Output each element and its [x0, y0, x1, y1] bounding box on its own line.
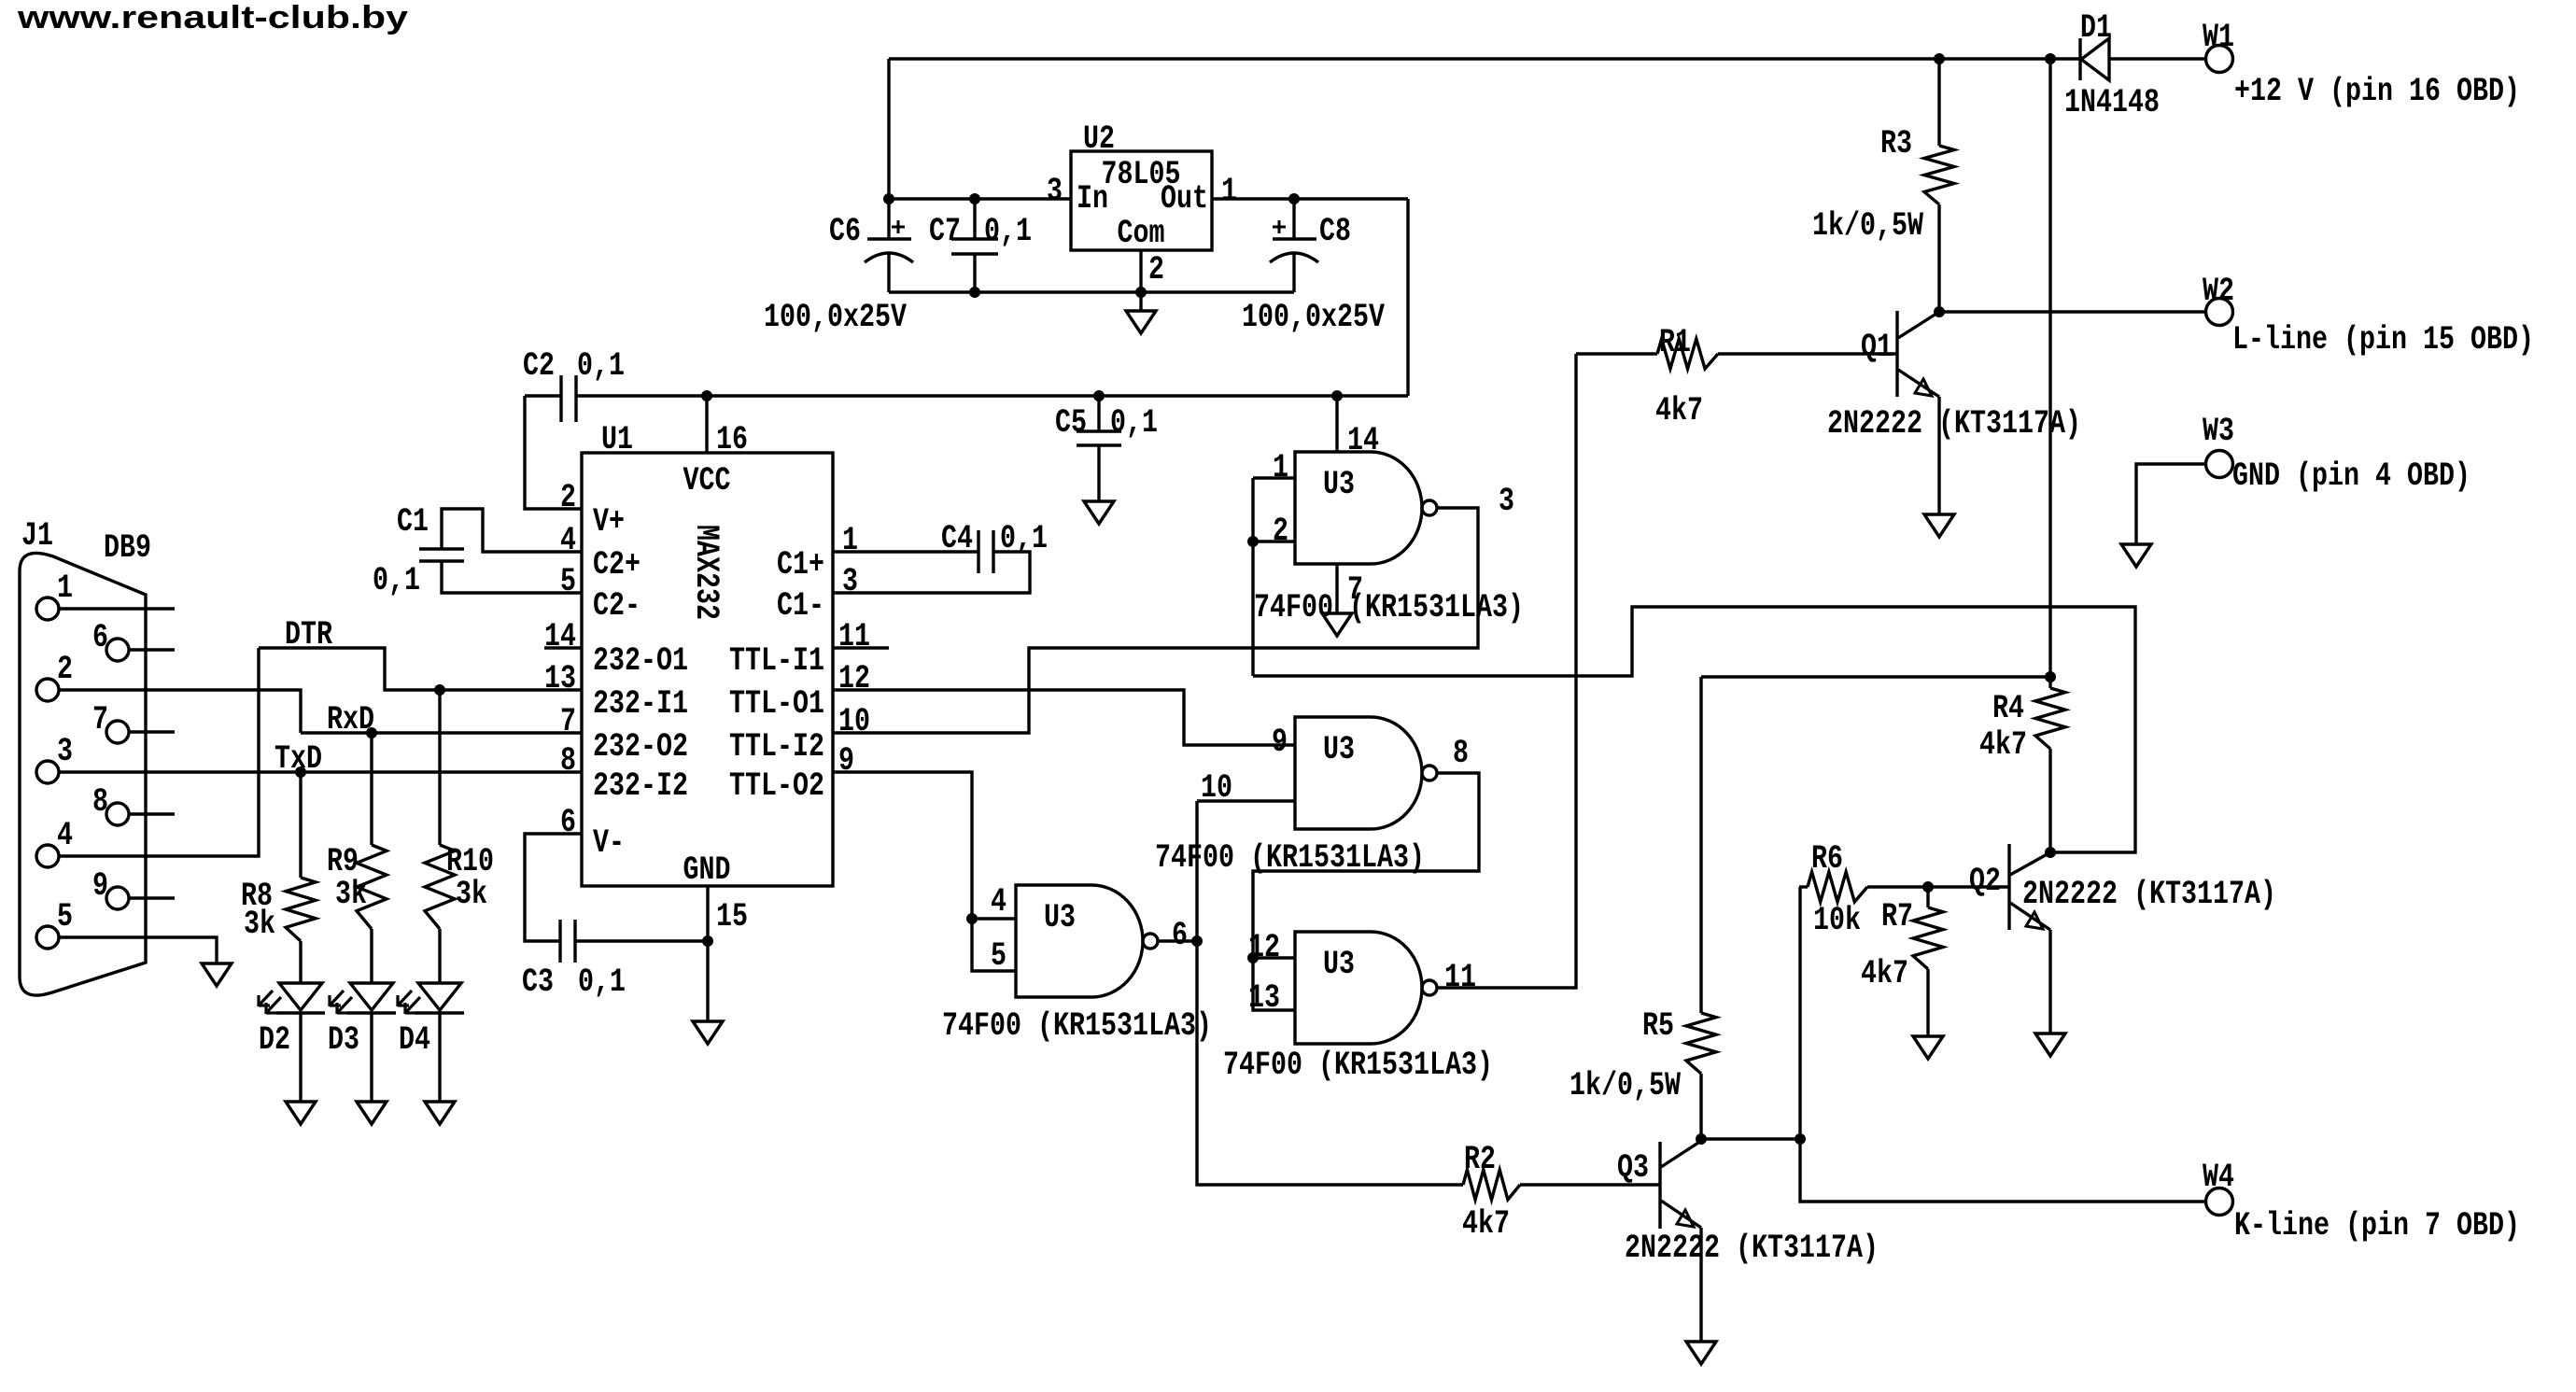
svg-text:2N2222 (KT3117A): 2N2222 (KT3117A) — [1625, 1230, 1879, 1267]
wire Com ground stem — [1139, 292, 1142, 311]
svg-text:Q3: Q3 — [1617, 1149, 1649, 1187]
wire U2 Out to 5V corner — [1212, 197, 1408, 200]
svg-text:Q1: Q1 — [1861, 329, 1893, 366]
resistor R2 4k7 — [1463, 1170, 1520, 1200]
wire U3a input stubs — [1253, 476, 1295, 479]
svg-text:TxD: TxD — [274, 740, 322, 778]
svg-text:C1+: C1+ — [777, 546, 824, 584]
wire pin12 to U3b pin9 — [833, 690, 1295, 745]
svg-text:C8: C8 — [1319, 213, 1351, 250]
svg-text:6: 6 — [1172, 917, 1188, 954]
svg-text:1N4148: 1N4148 — [2064, 84, 2160, 121]
node Q3 collector R5 junction — [1696, 1134, 1707, 1145]
svg-text:9: 9 — [838, 742, 854, 780]
terminal W2 circle — [2206, 299, 2233, 326]
node U1 pin16 on VCC rail — [702, 391, 712, 401]
svg-text:R1: R1 — [1659, 324, 1691, 361]
wire pin6 V- to C3 — [525, 834, 582, 941]
wire C3 to pin15 node — [575, 939, 708, 942]
svg-text:U3: U3 — [1323, 731, 1355, 768]
wire U1 pin16 stem — [705, 396, 708, 453]
svg-text:C1: C1 — [397, 503, 429, 541]
svg-text:74F00 (KR1531LA3): 74F00 (KR1531LA3) — [1254, 589, 1524, 626]
connector J1 DB9 shell — [20, 553, 146, 995]
svg-text:D1: D1 — [2080, 9, 2112, 47]
wire J1 pin7 stub — [129, 730, 175, 733]
wire J1 pin9 stub — [129, 896, 175, 899]
svg-text:74F00 (KR1531LA3): 74F00 (KR1531LA3) — [1223, 1047, 1493, 1084]
svg-text:9: 9 — [1272, 724, 1288, 761]
LED D3 — [350, 983, 393, 1010]
svg-text:U3: U3 — [1044, 899, 1076, 936]
svg-text:R2: R2 — [1464, 1141, 1496, 1178]
svg-text:C2+: C2+ — [593, 546, 640, 584]
transistor Q3 2N2222 — [1658, 1142, 1661, 1229]
wire U2 Com to ground rail — [1139, 250, 1142, 292]
svg-text:2: 2 — [560, 479, 576, 516]
terminal W4 circle — [2206, 1188, 2233, 1216]
ground under D3 — [357, 1102, 387, 1124]
node R10 on DTR line — [435, 685, 445, 696]
svg-text:3k: 3k — [335, 876, 367, 913]
ground at J1 pin5 — [202, 963, 232, 986]
svg-text:13: 13 — [544, 660, 576, 697]
svg-text:4k7: 4k7 — [1462, 1205, 1510, 1243]
svg-text:1: 1 — [842, 522, 858, 559]
svg-text:C4: C4 — [941, 520, 973, 557]
NAND gate U3a pins 1 2 3 — [1295, 452, 1422, 564]
svg-text:www.renault-club.by: www.renault-club.by — [17, 0, 408, 35]
svg-text:0,1: 0,1 — [578, 963, 626, 1001]
svg-text:U3: U3 — [1323, 946, 1355, 983]
terminal W3 circle — [2206, 451, 2233, 478]
wire U3d output to R1 riser — [1437, 354, 1576, 988]
svg-text:232-O2: 232-O2 — [593, 728, 688, 766]
ground under U1 pin15 — [693, 1021, 723, 1044]
wire Q2 emitter to ground — [2048, 930, 2051, 1033]
svg-text:2N2222 (KT3117A): 2N2222 (KT3117A) — [2022, 876, 2276, 913]
wire U3a inputs to Q2 collector net — [1253, 607, 2135, 852]
J1 pin 1 circle — [36, 598, 59, 620]
node C7 top junction — [970, 194, 980, 204]
transistor Q1 2N2222 — [1895, 311, 1898, 397]
resistor R6 10k — [1799, 885, 1808, 888]
svg-text:R5: R5 — [1642, 1007, 1674, 1045]
ground under Q2 — [2035, 1033, 2065, 1056]
svg-text:5: 5 — [560, 563, 576, 600]
svg-text:J1: J1 — [21, 517, 53, 555]
svg-text:C6: C6 — [829, 213, 861, 250]
svg-text:232-O1: 232-O1 — [593, 642, 688, 680]
svg-text:W3: W3 — [2203, 413, 2234, 450]
svg-text:+12 V (pin 16 OBD): +12 V (pin 16 OBD) — [2234, 73, 2520, 110]
wire U3a pin14 stem — [1335, 396, 1338, 452]
svg-text:W2: W2 — [2203, 273, 2234, 310]
capacitor C6 — [887, 199, 890, 239]
node pin15 C3 junction — [703, 936, 713, 947]
wire R4 bottom to Q2 collector — [2048, 749, 2051, 852]
wire U3d pin12 stub — [1253, 956, 1295, 959]
wire In rail — [889, 197, 1071, 200]
wire R3 bottom to Q1 collector — [1937, 204, 1940, 312]
svg-text:3k: 3k — [456, 876, 487, 913]
svg-text:GND (pin 4 OBD): GND (pin 4 OBD) — [2232, 457, 2470, 495]
svg-text:10: 10 — [838, 703, 870, 740]
resistor R10 3k — [438, 690, 441, 845]
svg-text:11: 11 — [838, 618, 870, 655]
wire J1 pin5 to ground — [59, 937, 217, 963]
svg-text:C2-: C2- — [593, 587, 640, 625]
voltage regulator U2 78L05 — [1071, 151, 1212, 250]
svg-text:15: 15 — [716, 898, 748, 935]
svg-text:0,1: 0,1 — [577, 347, 625, 385]
svg-text:4k7: 4k7 — [1861, 955, 1908, 992]
node C5 on VCC rail — [1094, 391, 1105, 401]
resistor R4 4k7 — [2048, 677, 2051, 688]
node Q1 collector junction — [1935, 307, 1945, 317]
svg-text:R3: R3 — [1880, 125, 1912, 162]
wire C2 to V+ pin2 — [525, 396, 582, 509]
resistor R8 3k — [299, 772, 302, 878]
svg-text:R10: R10 — [446, 843, 494, 880]
node top rail D1 junction — [2046, 54, 2056, 64]
transistor Q2 2N2222 — [2007, 844, 2010, 930]
wire DTR J1 pin4 riser — [59, 648, 259, 856]
svg-text:11: 11 — [1444, 959, 1476, 996]
svg-text:2: 2 — [1273, 513, 1288, 550]
svg-text:D4: D4 — [399, 1021, 430, 1059]
svg-text:U3: U3 — [1323, 466, 1355, 503]
wire +12 vertical from D1 node — [2048, 59, 2051, 677]
resistor R9 3k — [370, 733, 373, 845]
svg-text:L-line (pin 15 OBD): L-line (pin 15 OBD) — [2232, 321, 2534, 359]
node R7 junction on Q2 base — [1923, 882, 1934, 893]
wire J1 pin8 stub — [129, 812, 175, 815]
node R8 on TxD line — [296, 767, 306, 778]
svg-text:74F00 (KR1531LA3): 74F00 (KR1531LA3) — [942, 1007, 1212, 1045]
svg-text:2: 2 — [1148, 251, 1164, 288]
wire R6 riser and W4 drop — [1800, 887, 2205, 1202]
svg-text:3: 3 — [1499, 483, 1514, 520]
wire Q1 collector to W2 — [1939, 310, 2205, 313]
J1 pin 6 circle — [106, 639, 129, 661]
node U3a pin2 junction — [1248, 537, 1259, 547]
wire DTR jog to U1 pin13 — [259, 648, 582, 690]
svg-text:D3: D3 — [328, 1021, 359, 1059]
diode D1 1N4148 — [2050, 57, 2080, 60]
svg-text:V-: V- — [593, 824, 625, 862]
svg-text:16: 16 — [716, 421, 748, 458]
svg-text:TTL-O1: TTL-O1 — [729, 685, 824, 723]
node U3c output junction — [1192, 936, 1203, 947]
svg-text:6: 6 — [92, 619, 108, 656]
svg-text:0,1: 0,1 — [373, 562, 420, 599]
node top rail R3 junction — [1935, 54, 1945, 64]
svg-text:D2: D2 — [259, 1021, 290, 1059]
svg-text:100,0x25V: 100,0x25V — [1242, 299, 1385, 336]
node U3 pin14 on VCC rail — [1332, 391, 1343, 401]
wire Q3 emitter to ground — [1699, 1228, 1702, 1342]
terminal W1 circle — [2206, 46, 2233, 73]
svg-text:DB9: DB9 — [104, 529, 151, 567]
NAND gate U3b pins 9 10 8 — [1295, 717, 1422, 829]
svg-text:TTL-I2: TTL-I2 — [729, 728, 824, 766]
wire pin9 to U3c inputs — [833, 772, 1016, 971]
node U3c pin4 junction — [967, 914, 978, 924]
wire C4 to pin3 — [833, 552, 1030, 593]
svg-text:1k/0,5W: 1k/0,5W — [1812, 207, 1923, 245]
svg-text:14: 14 — [544, 618, 576, 655]
wire U3a pin7 ground stem — [1335, 564, 1338, 613]
wire top rail riser to In node — [887, 59, 890, 199]
svg-text:R6: R6 — [1811, 840, 1843, 878]
svg-text:9: 9 — [92, 867, 108, 905]
svg-text:U2: U2 — [1083, 120, 1115, 158]
capacitor C8 — [1292, 199, 1295, 239]
wire W3 to ground — [2136, 464, 2205, 544]
svg-text:RxD: RxD — [327, 701, 374, 738]
svg-text:8: 8 — [1453, 735, 1469, 772]
svg-text:3k: 3k — [244, 906, 275, 943]
capacitor C4 — [977, 530, 979, 573]
svg-text:0,1: 0,1 — [1110, 404, 1158, 442]
svg-text:VCC: VCC — [683, 462, 731, 499]
svg-text:Q2: Q2 — [1969, 863, 2001, 900]
wire +12 to R5 — [1701, 675, 2050, 678]
svg-text:7: 7 — [92, 701, 108, 738]
node Q2 collector junction — [2046, 848, 2056, 858]
J1 pin 8 circle — [106, 803, 129, 825]
svg-text:Out: Out — [1161, 180, 1208, 218]
svg-text:7: 7 — [560, 703, 576, 740]
wire 5V drop to VCC rail — [1406, 199, 1409, 396]
J1 pin 3 circle — [36, 761, 59, 783]
wire pin4 to C1 — [442, 509, 582, 552]
capacitor C7 — [973, 199, 976, 239]
wire TxD J1 pin3 to U1 pin8 — [59, 770, 582, 773]
svg-text:4k7: 4k7 — [1979, 726, 2027, 764]
wire U3b pin10 input — [1197, 799, 1295, 802]
ground under C5 — [1084, 501, 1114, 524]
svg-text:W1: W1 — [2203, 19, 2234, 56]
ground under Q1 — [1924, 514, 1954, 537]
node U3d pin12 junction — [1248, 953, 1259, 963]
svg-text:Com: Com — [1118, 215, 1165, 252]
capacitor C3 — [558, 920, 561, 963]
J1 pin 2 circle — [36, 679, 59, 701]
svg-text:12: 12 — [838, 660, 870, 697]
svg-text:3: 3 — [842, 563, 858, 600]
svg-text:MAX232: MAX232 — [687, 525, 725, 620]
wire +12V top rail — [889, 57, 2050, 60]
NAND gate U3d pins 12 13 11 — [1295, 932, 1422, 1044]
svg-text:232-I2: 232-I2 — [593, 767, 688, 805]
wire U3c output to node — [1158, 939, 1197, 942]
svg-text:0,1: 0,1 — [984, 213, 1032, 250]
wire U3b output to U3d inputs — [1253, 773, 1479, 1010]
wire U3c pin4 stub — [972, 917, 1016, 920]
IC U1 MAX232 — [582, 453, 833, 886]
svg-text:C7: C7 — [929, 213, 961, 250]
NAND gate U3c pins 4 5 6 — [1016, 885, 1143, 997]
svg-text:2: 2 — [57, 651, 73, 688]
node K-line R6 junction — [1795, 1134, 1806, 1145]
wire ground rail under C6 C7 U2 C8 — [889, 290, 1294, 293]
svg-text:R7: R7 — [1881, 898, 1913, 935]
wire J1 pin1 stub — [59, 607, 175, 610]
svg-text:4k7: 4k7 — [1655, 392, 1703, 429]
svg-text:U1: U1 — [601, 421, 633, 458]
resistor R3 1k/0,5W — [1924, 146, 1954, 204]
wire RxD line to U1 pin7 — [301, 731, 582, 734]
node R9 on RxD line — [367, 728, 377, 738]
resistor R5 1k/0,5W — [1699, 677, 1702, 1013]
resistor R1 4k7 — [1576, 352, 1657, 355]
svg-text:C1-: C1- — [777, 587, 824, 625]
svg-text:2N2222 (KT3117A): 2N2222 (KT3117A) — [1827, 405, 2081, 443]
J1 pin 9 circle — [106, 887, 129, 909]
wire U1 pin15 stem — [706, 886, 709, 941]
svg-text:13: 13 — [1248, 979, 1280, 1017]
svg-text:10k: 10k — [1813, 902, 1861, 939]
wire J1 pin2 to RxD line — [59, 690, 301, 733]
svg-text:1k/0,5W: 1k/0,5W — [1570, 1067, 1681, 1104]
wire C1 to pin5 — [442, 561, 582, 593]
svg-text:C5: C5 — [1055, 404, 1087, 442]
ground under U2 — [1126, 311, 1156, 333]
resistor R7 4k7 — [1926, 887, 1929, 907]
J1 pin 7 circle — [106, 721, 129, 743]
LED D4 — [418, 983, 461, 1010]
capacitor C2 — [525, 394, 561, 397]
svg-text:GND: GND — [683, 851, 731, 889]
svg-text:R9: R9 — [327, 843, 359, 880]
wire J1 pin6 stub — [129, 648, 175, 651]
svg-text:DTR: DTR — [285, 616, 332, 654]
wire R3 top — [1937, 59, 1940, 146]
svg-text:12: 12 — [1248, 929, 1280, 966]
node C8 top — [1289, 194, 1300, 204]
svg-text:1: 1 — [1273, 449, 1288, 486]
svg-text:R4: R4 — [1992, 690, 2024, 727]
ground under D2 — [286, 1102, 316, 1124]
svg-text:4: 4 — [57, 817, 73, 854]
capacitor C5 — [1097, 396, 1100, 431]
ground at W3 — [2121, 544, 2151, 567]
wire K-line horizontal — [1701, 1137, 1800, 1140]
wire VCC rail — [576, 394, 1408, 397]
svg-text:4: 4 — [560, 522, 576, 559]
svg-text:6: 6 — [560, 804, 576, 841]
wire Q1 emitter to ground — [1937, 397, 1940, 514]
svg-text:1: 1 — [1221, 173, 1237, 210]
svg-text:C2: C2 — [523, 347, 555, 385]
svg-text:C3: C3 — [522, 963, 554, 1001]
pin 11 TTL-I1 stub — [833, 646, 889, 649]
ground under Q3 — [1686, 1342, 1716, 1364]
J1 pin 5 circle — [36, 926, 59, 949]
LED D2 — [279, 983, 322, 1010]
svg-text:W4: W4 — [2203, 1159, 2234, 1196]
wire U3a inputs riser — [1251, 478, 1254, 676]
node C6 top junction — [884, 194, 894, 204]
svg-text:1: 1 — [57, 569, 73, 607]
wire pin1 to C4 — [833, 550, 978, 553]
svg-text:3: 3 — [1047, 173, 1063, 210]
svg-text:5: 5 — [991, 937, 1006, 975]
node R4 R5 +12 junction — [2046, 672, 2056, 682]
wire U3b pin10 riser down to R2 — [1197, 801, 1463, 1185]
svg-text:K-line (pin 7 OBD): K-line (pin 7 OBD) — [2234, 1207, 2520, 1244]
svg-text:100,0x25V: 100,0x25V — [764, 299, 907, 336]
svg-text:3: 3 — [57, 733, 73, 770]
node U2 Com bottom — [1136, 288, 1147, 298]
J1 pin 4 circle — [36, 845, 59, 867]
svg-text:14: 14 — [1347, 422, 1379, 459]
node C7 bottom — [970, 288, 980, 298]
svg-text:TTL-I1: TTL-I1 — [729, 642, 824, 680]
ground U3a pin7 — [1322, 613, 1352, 636]
svg-text:4: 4 — [991, 883, 1006, 921]
svg-text:V+: V+ — [593, 503, 625, 541]
pin 14 232-O1 stub — [544, 646, 582, 649]
svg-text:TTL-O2: TTL-O2 — [729, 767, 824, 805]
wire pin15 ground stem — [706, 941, 709, 1021]
svg-text:In: In — [1077, 180, 1108, 218]
wire pin10 to U3a output — [833, 508, 1478, 733]
svg-text:5: 5 — [57, 898, 73, 935]
svg-text:232-I1: 232-I1 — [593, 685, 688, 723]
ground under R7 — [1913, 1036, 1943, 1059]
ground under D4 — [425, 1102, 455, 1124]
svg-text:8: 8 — [560, 742, 576, 780]
svg-text:8: 8 — [92, 783, 108, 821]
capacitor C1 — [419, 547, 464, 550]
